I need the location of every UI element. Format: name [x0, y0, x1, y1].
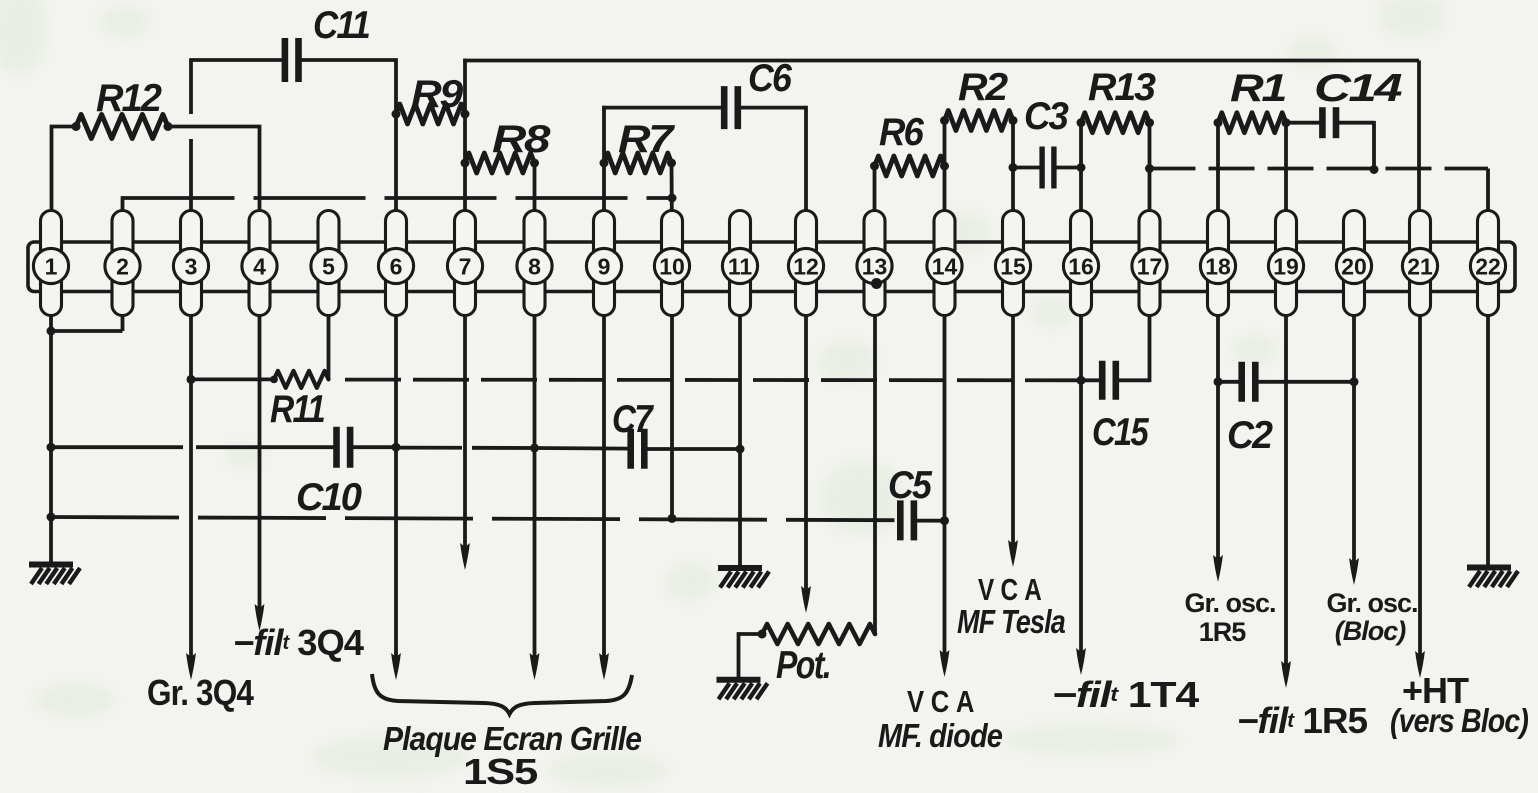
junction dot terminal 6 line B [392, 443, 401, 452]
wire terminal 19 pin (-fil 1R5) [1281, 316, 1291, 689]
label Plaque Ecran Grille [383, 720, 642, 757]
junction dot R12 left [72, 122, 81, 131]
label C10 [296, 476, 362, 519]
wire terminal 16 pin (-fil 1T4) [1076, 316, 1086, 676]
svg-text:R6: R6 [879, 111, 924, 154]
svg-text:MF. diode: MF. diode [878, 717, 1003, 754]
svg-text:20: 20 [1341, 254, 1367, 280]
svg-text:13: 13 [862, 254, 888, 280]
svg-text:6: 6 [390, 254, 403, 280]
resistor R13 [1081, 113, 1150, 133]
wire C2 line left [1218, 380, 1242, 384]
terminal 8 (lug, circle, pin number) [517, 211, 552, 316]
capacitor C10 [337, 427, 351, 468]
wire terminal 14 riser through R6 to R2 [943, 121, 947, 211]
svg-text:9: 9 [598, 254, 611, 280]
svg-text:8: 8 [528, 254, 541, 280]
junction dot R1 left [1214, 118, 1223, 127]
svg-text:5: 5 [322, 254, 335, 280]
label -fil 1R5 [1237, 700, 1368, 741]
wire line B dashed terminal 6 to terminal 8 [400, 446, 535, 450]
wire C3 line left [1013, 166, 1041, 170]
svg-text:R1: R1 [1230, 67, 1285, 110]
ground potentiometer [717, 680, 768, 700]
ground terminal 11 [718, 568, 769, 588]
wire terminal 3 pin (Gr. 3Q4) [186, 316, 196, 681]
wire terminal 15 riser [1011, 121, 1015, 211]
svg-text:R8: R8 [492, 118, 551, 161]
svg-text:17: 17 [1137, 254, 1163, 280]
svg-text:C7: C7 [612, 398, 655, 441]
label C3 [1024, 95, 1069, 138]
svg-text:−filt 1T4: −filt 1T4 [1052, 674, 1199, 715]
svg-text:2: 2 [116, 254, 129, 280]
junction dot R12 right [164, 122, 173, 131]
resistor R2 [945, 111, 1014, 131]
junction dot C3 right [1077, 163, 1086, 172]
junction dot R7 right [667, 159, 676, 168]
svg-text:C14: C14 [1314, 67, 1403, 110]
capacitor C2 [1242, 362, 1256, 402]
svg-text:R11: R11 [270, 388, 324, 431]
terminal 16 (lug, circle, pin number) [1063, 211, 1098, 316]
label Gr. osc. 1R5 [1184, 588, 1275, 647]
wire C11 line right to terminal 6 riser [302, 58, 397, 114]
junction dot terminal 8 line B [530, 444, 539, 453]
svg-text:12: 12 [793, 254, 819, 280]
svg-text:C5: C5 [888, 464, 933, 507]
svg-text:11: 11 [728, 254, 753, 280]
svg-text:C10: C10 [296, 476, 362, 519]
wire potentiometer left to ground [739, 632, 764, 679]
wire AVC dashed bus terminal 2 to terminal 10 [123, 196, 673, 210]
label Pot. [776, 644, 830, 687]
svg-text:C11: C11 [313, 4, 369, 47]
svg-text:1: 1 [45, 254, 58, 280]
wire screen line terminal 3 to R11 [191, 377, 274, 381]
terminal 22 (lug, circle, pin number) [1470, 211, 1505, 316]
wire C10 to terminal 6 [350, 445, 396, 449]
terminal 6 (lug, circle, pin number) [378, 211, 413, 316]
terminal 11 (lug, circle, pin number) [722, 211, 757, 316]
svg-text:Pot.: Pot. [776, 644, 830, 687]
junction dot terminal 3 screen line [187, 375, 196, 384]
wire C3 line right [1055, 166, 1081, 170]
terminal 9 (lug, circle, pin number) [586, 211, 621, 316]
resistor R11 [274, 371, 329, 388]
svg-text:Gr. osc.: Gr. osc. [1184, 588, 1275, 618]
label R1 [1230, 67, 1285, 110]
junction dot R13 left [1077, 118, 1086, 127]
junction dot R9 right [461, 110, 470, 119]
terminal 17 (lug, circle, pin number) [1132, 211, 1167, 316]
terminal 7 (lug, circle, pin number) [447, 211, 482, 316]
label C11 [313, 4, 369, 47]
junction dot terminal 16 screen line [1077, 376, 1086, 385]
wire terminal 5 pin [327, 316, 331, 380]
terminal 1 (lug, circle, pin number) [33, 211, 68, 316]
wire terminal 6 pin (Plaque) [391, 316, 401, 681]
svg-text:4: 4 [253, 254, 266, 280]
svg-text:C2: C2 [1227, 414, 1273, 457]
wire terminal 10 pin [670, 316, 674, 519]
terminal 3 (lug, circle, pin number) [173, 211, 208, 316]
junction dot R2 right [1009, 116, 1018, 125]
label -fil 1T4 [1052, 674, 1199, 715]
junction dot terminal 11 line B [736, 445, 745, 454]
svg-text:1R5: 1R5 [1199, 617, 1247, 647]
wire terminal 22 pin to ground [1486, 316, 1490, 568]
junction dot terminal 18 C2 line [1214, 377, 1223, 386]
wire C5 to terminal 14 [914, 519, 945, 523]
label C14 [1314, 67, 1403, 110]
label VCA MF diode [878, 684, 1003, 754]
label C2 [1227, 414, 1273, 457]
svg-text:(vers Bloc): (vers Bloc) [1390, 702, 1529, 739]
terminal 15 (lug, circle, pin number) [995, 211, 1030, 316]
junction dot R8 left [461, 159, 470, 168]
potentiometer Pot. [762, 624, 875, 644]
svg-text:VCA: VCA [978, 572, 1048, 607]
svg-text:R12: R12 [96, 77, 162, 120]
resistor R12 [76, 115, 168, 139]
junction dot R9 left [392, 110, 401, 119]
junction dot terminal 1 line C [47, 513, 56, 522]
resistor R8 [465, 153, 535, 173]
wire line B terminal 1 to C10 [51, 445, 337, 449]
label +HT vers Bloc [1390, 670, 1529, 739]
wire terminal 1 pin to ground [49, 316, 53, 565]
junction dot terminal 1/2 tie [47, 327, 56, 336]
wire C7 to terminal 11 [644, 447, 740, 451]
svg-text:22: 22 [1475, 254, 1501, 280]
label R2 [958, 66, 1008, 109]
ground terminal 1 [29, 565, 80, 585]
terminal 12 (lug, circle, pin number) [788, 211, 823, 316]
label R12 [96, 77, 162, 120]
terminal 18 (lug, circle, pin number) [1200, 211, 1235, 316]
wire top bus terminal 7 to terminal 21 [463, 59, 1419, 211]
terminal 21 (lug, circle, pin number) [1402, 211, 1437, 316]
label VCA MF Tesla [957, 572, 1066, 640]
junction dot R6 right [940, 162, 949, 171]
wire terminal 7 riser [463, 61, 467, 211]
label C5 [888, 464, 933, 507]
resistor R1 [1218, 113, 1286, 133]
capacitor C15 [1102, 361, 1116, 400]
terminal 20 (lug, circle, pin number) [1336, 211, 1371, 316]
terminal strip body [28, 242, 1515, 292]
wire terminal 15 pin (VCA MF Tesla) [1008, 316, 1018, 568]
label C15 [1092, 411, 1150, 454]
label R8 [492, 118, 551, 161]
svg-text:R9: R9 [411, 73, 464, 116]
label Gr. 3Q4 [147, 672, 254, 713]
label R6 [879, 111, 924, 154]
wire R1 left to terminal 18 [1216, 123, 1220, 211]
label R11 [270, 388, 324, 431]
ink blob terminal 13 [871, 278, 882, 289]
junction dot C14 drop on dashed bus [1370, 165, 1379, 174]
wire line B terminal 8 to C7 [535, 446, 631, 450]
wire R7 right to terminal 10 [670, 163, 674, 211]
wire screen dashed line to terminal 16 [345, 378, 1081, 382]
svg-text:(Bloc): (Bloc) [1335, 616, 1407, 646]
svg-text:−filt 3Q4: −filt 3Q4 [233, 622, 364, 663]
svg-text:3: 3 [185, 254, 198, 280]
svg-text:C3: C3 [1024, 95, 1069, 138]
capacitor C7 [631, 429, 645, 469]
svg-text:16: 16 [1068, 254, 1094, 280]
junction dot R8 right [530, 159, 539, 168]
svg-text:Gr. osc.: Gr. osc. [1326, 588, 1417, 618]
wire terminal 11 pin to ground [738, 316, 742, 568]
label -fil 3Q4 [233, 622, 364, 663]
svg-text:21: 21 [1407, 254, 1433, 280]
wire terminal 20 pin (Gr. osc. Bloc) [1349, 316, 1359, 586]
wire terminal 8 pin (Ecran) [530, 316, 540, 681]
svg-text:1S5: 1S5 [463, 751, 538, 792]
wire terminal 7 pin [460, 316, 470, 571]
label C6 [748, 57, 792, 100]
wire dashed bus terminal 17 to terminal 22 [1150, 169, 1489, 211]
label 1S5 [463, 751, 538, 792]
wire terminal 12 pin (potentiometer wiper) [801, 316, 811, 614]
wire C6 right to terminal 12 [737, 106, 806, 211]
svg-text:MF Tesla: MF Tesla [957, 603, 1066, 640]
terminal 4 (lug, circle, pin number) [242, 211, 277, 316]
wire R1 right to C14 [1286, 121, 1323, 125]
label R13 [1088, 66, 1156, 109]
resistor R7 [604, 153, 672, 173]
junction dot C3 left [1009, 163, 1018, 172]
capacitor C6 [724, 86, 738, 129]
wire terminal 17 riser [1148, 123, 1152, 211]
junction dot R13 right [1145, 118, 1154, 127]
resistor R6 [875, 156, 945, 176]
terminal 5 (lug, circle, pin number) [311, 211, 346, 316]
wire C14 right drop to dashed bus [1336, 121, 1374, 170]
brace Plaque Ecran Grille [372, 674, 632, 714]
label C7 [612, 398, 655, 441]
ground terminal 22 [1467, 568, 1518, 588]
junction dot terminal 1 line B [47, 443, 56, 452]
svg-text:19: 19 [1273, 254, 1299, 280]
svg-text:C15: C15 [1092, 411, 1150, 454]
junction dot terminal 10 on AVC bus [668, 194, 677, 203]
wire line C dashed terminal 1 to C5 [51, 517, 895, 520]
wire terminal 18 pin (Gr. osc. 1R5) [1213, 316, 1223, 583]
wire terminal 2 pin tie to terminal 1 [49, 316, 122, 332]
junction dot R7 left [600, 159, 609, 168]
wire terminal 6 riser below R9 [394, 114, 398, 211]
terminal 19 (lug, circle, pin number) [1268, 211, 1303, 316]
wire C15 line left [1081, 378, 1103, 382]
svg-text:Gr. 3Q4: Gr. 3Q4 [147, 672, 254, 713]
wire R8 right to terminal 8 [533, 163, 537, 211]
junction dot terminal 14 line C [940, 516, 949, 525]
junction dot terminal 20 C2 line [1350, 377, 1359, 386]
svg-text:18: 18 [1205, 254, 1231, 280]
capacitor C11 [285, 38, 299, 82]
wire terminal 4 pin (-fil 3Q4) [255, 316, 265, 632]
wire terminal 1 to R12 left [50, 127, 76, 211]
terminal 14 (lug, circle, pin number) [927, 211, 962, 316]
junction dot potentiometer left [758, 630, 767, 639]
junction dot terminal 10 line C [668, 514, 677, 523]
svg-text:7: 7 [459, 254, 472, 280]
junction dot R1 right [1282, 118, 1291, 127]
label R9 [411, 73, 464, 116]
wire C15 to terminal 17 riser [1116, 316, 1150, 383]
junction dot R6 left [870, 162, 879, 171]
junction dot terminal 17 on dashed bus [1145, 164, 1154, 173]
wire terminal 9 pin (Grille) [599, 316, 609, 681]
label Gr. osc. Bloc [1326, 588, 1417, 646]
wire terminal 13 pin to potentiometer right [873, 316, 877, 635]
capacitor C14 [1322, 107, 1336, 138]
svg-text:R7: R7 [618, 118, 676, 161]
wire R12 right to terminal 4 [168, 125, 260, 211]
label R7 [618, 118, 676, 161]
wire terminal 3 riser to C11 line (with crossover break) [189, 60, 193, 211]
resistor R9 [396, 104, 465, 124]
svg-text:−filt 1R5: −filt 1R5 [1237, 700, 1368, 741]
capacitor C5 [900, 500, 914, 540]
wire C2 to terminal 20 [1255, 380, 1354, 384]
svg-text:10: 10 [659, 254, 685, 280]
svg-text:VCA: VCA [907, 684, 981, 719]
svg-text:R2: R2 [958, 66, 1008, 109]
terminal 10 (lug, circle, pin number) [654, 211, 689, 316]
wire terminal 16 riser [1079, 123, 1083, 211]
svg-text:15: 15 [1000, 254, 1026, 280]
wire terminal 14 pin (VCA MF diode) [940, 316, 950, 678]
terminal 13 (lug, circle, pin number) [857, 211, 892, 316]
wire R1 right to terminal 19 [1284, 123, 1288, 211]
wire terminal 21 pin (+HT) [1415, 316, 1425, 679]
junction dot R2 left [940, 116, 949, 125]
svg-text:C6: C6 [748, 57, 792, 100]
capacitor C3 [1042, 147, 1054, 189]
svg-text:R13: R13 [1088, 66, 1156, 109]
wire C11 line left [189, 58, 282, 62]
wire R6 left to terminal 13 [873, 166, 877, 211]
svg-text:14: 14 [932, 254, 958, 280]
junction dot R11 left [270, 376, 278, 384]
terminal 2 (lug, circle, pin number) [105, 211, 140, 316]
wire terminal 9 riser to C6 line [602, 106, 725, 211]
